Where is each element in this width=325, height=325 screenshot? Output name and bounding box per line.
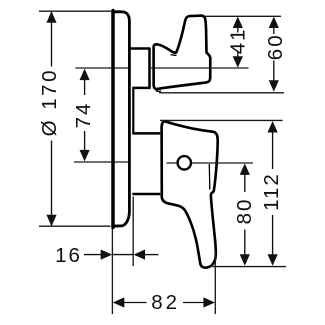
upper handle (lever with knob) <box>154 16 211 90</box>
41 arrows <box>233 17 243 29</box>
extension line 82 right <box>214 252 216 314</box>
extension line top right (41/60) <box>205 15 281 17</box>
lower handle inner edge <box>208 164 211 190</box>
extension line 16 right <box>132 197 134 267</box>
cone bottom corner tick <box>156 90 162 93</box>
upper centerline <box>76 67 249 69</box>
16 arrows <box>101 250 113 260</box>
lower centerline <box>74 162 253 163</box>
svg-text:112: 112 <box>260 172 283 211</box>
74 arrows <box>80 69 90 81</box>
svg-text:80: 80 <box>233 198 256 225</box>
svg-text:82: 82 <box>151 291 180 314</box>
dimension 60 line <box>273 27 275 81</box>
dimension Ø170 line <box>51 11 53 226</box>
plate front face (wall line) <box>111 11 115 228</box>
dimension 16 line <box>84 254 159 256</box>
extension line top left (Ø170 top) <box>39 10 111 12</box>
lower hub <box>132 133 160 194</box>
dimension 82 line <box>123 302 205 304</box>
dimension 74 line <box>84 79 86 151</box>
svg-text:60: 60 <box>264 33 287 60</box>
svg-text:16: 16 <box>55 244 82 267</box>
dimension 80 line <box>244 174 246 255</box>
svg-text:41: 41 <box>227 27 250 54</box>
lower handle (lever pointing down) <box>162 121 218 267</box>
Ø170 arrows <box>46 11 56 23</box>
80 arrows <box>240 163 250 175</box>
82 arrows <box>113 297 125 307</box>
upper handle surface tick <box>171 55 177 56</box>
extension line 112/80 bottom <box>213 266 287 268</box>
svg-text:74: 74 <box>72 102 95 129</box>
60 arrows <box>269 17 279 29</box>
svg-text:Ø 170: Ø 170 <box>38 68 61 136</box>
sleeve waist between hubs <box>132 88 134 134</box>
dimension 41 line <box>237 27 239 57</box>
upper hub <box>130 49 150 88</box>
extension line 82 left / 16 left <box>111 229 113 315</box>
extension line 60 bottom <box>159 92 284 94</box>
screw circle on lower handle <box>178 156 191 169</box>
dimension 112 line <box>272 132 274 256</box>
extension line bottom left (Ø170 bottom) <box>39 225 111 227</box>
extension line 112 top <box>160 119 283 121</box>
escutcheon plate side profile <box>113 12 129 226</box>
112 arrows <box>268 121 278 133</box>
